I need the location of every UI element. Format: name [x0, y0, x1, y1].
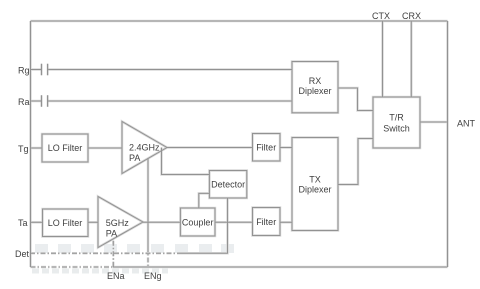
- svg-text:LO Filter: LO Filter: [48, 143, 83, 153]
- svg-text:Filter: Filter: [256, 217, 276, 227]
- svg-text:Tg: Tg: [18, 144, 29, 154]
- svg-text:ENa: ENa: [107, 271, 125, 281]
- wire haze layer: [31, 21, 448, 267]
- svg-text:2.4GHz: 2.4GHz: [129, 143, 160, 153]
- svg-text:5GHz: 5GHz: [106, 218, 130, 228]
- svg-text:TX: TX: [309, 174, 321, 184]
- svg-text:RX: RX: [309, 76, 322, 86]
- svg-text:ANT: ANT: [457, 119, 476, 129]
- svg-text:Detector: Detector: [211, 180, 245, 190]
- wire core layer: [31, 21, 448, 267]
- svg-text:PA: PA: [106, 229, 117, 239]
- svg-text:Coupler: Coupler: [182, 218, 214, 228]
- svg-text:LO Filter: LO Filter: [48, 218, 83, 228]
- svg-text:Switch: Switch: [383, 124, 410, 134]
- svg-text:Diplexer: Diplexer: [298, 86, 331, 96]
- watermark row 1: [35, 244, 234, 253]
- svg-text:Diplexer: Diplexer: [298, 185, 331, 195]
- svg-text:Ta: Ta: [18, 218, 28, 228]
- svg-text:Det: Det: [15, 249, 30, 259]
- svg-text:PA: PA: [129, 153, 140, 163]
- svg-text:Ra: Ra: [18, 97, 30, 107]
- svg-text:T/R: T/R: [389, 113, 404, 123]
- svg-text:Filter: Filter: [256, 143, 276, 153]
- svg-text:CRX: CRX: [402, 11, 421, 21]
- svg-text:CTX: CTX: [372, 11, 390, 21]
- svg-text:ENg: ENg: [144, 271, 162, 281]
- svg-text:Rg: Rg: [18, 66, 30, 76]
- watermark row 2: [32, 269, 168, 274]
